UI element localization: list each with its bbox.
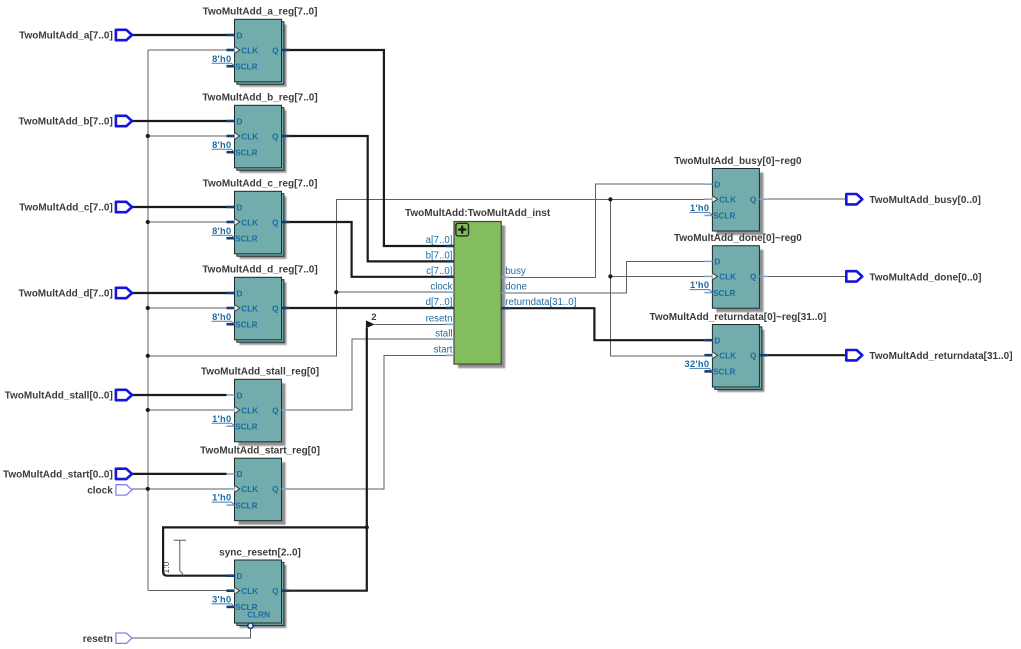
pin CLK of TwoMultAdd_busy_reg0 — [704, 196, 736, 205]
register TwoMultAdd_d_reg — [235, 277, 287, 345]
value label 8'h0 on SCLR of TwoMultAdd_d_reg — [212, 312, 235, 324]
svg-text:D: D — [714, 181, 720, 190]
register TwoMultAdd_done_reg0 — [712, 246, 763, 313]
svg-text:CLRN: CLRN — [247, 611, 270, 620]
svg-text:8'h0: 8'h0 — [212, 226, 231, 236]
svg-text:32'h0: 32'h0 — [684, 359, 709, 369]
svg-text:CLK: CLK — [241, 406, 258, 415]
pin CLK of TwoMultAdd_b_reg — [227, 132, 259, 141]
value label 1'h0 on SCLR of TwoMultAdd_busy_reg0 — [689, 203, 712, 215]
wire clock net: branch to b_reg CLK — [148, 135, 227, 137]
svg-text:D: D — [237, 289, 243, 298]
value label 8'h0 on SCLR of TwoMultAdd_c_reg — [212, 226, 235, 238]
svg-text:Q: Q — [272, 46, 279, 55]
svg-text:sync_resetn[2..0]: sync_resetn[2..0] — [219, 547, 301, 558]
wire TwoMultAdd_stall pin to stall_reg D — [132, 394, 227, 396]
svg-text:resetn: resetn — [83, 634, 113, 645]
bus rip arrow into resetn — [366, 320, 375, 328]
pin D of TwoMultAdd_d_reg — [227, 289, 243, 298]
svg-text:D: D — [237, 203, 243, 212]
wire d_reg Q to inst d — [290, 307, 447, 309]
pin c[7..0] of TwoMultAdd_inst — [426, 266, 454, 277]
junction clock at c_reg CLK — [146, 220, 150, 224]
svg-text:TwoMultAdd_done[0..0]: TwoMultAdd_done[0..0] — [869, 272, 981, 283]
svg-text:TwoMultAdd_a_reg[7..0]: TwoMultAdd_a_reg[7..0] — [203, 7, 318, 18]
input port TwoMultAdd_a — [19, 30, 132, 42]
pin b[7..0] of TwoMultAdd_inst — [426, 251, 454, 262]
svg-text:SCLR: SCLR — [235, 321, 257, 330]
pin CLK of TwoMultAdd_stall_reg — [227, 406, 259, 415]
pin CLK of TwoMultAdd_c_reg — [227, 218, 259, 227]
value label 3'h0 on SCLR of sync_resetn — [212, 595, 235, 607]
pin D of sync_resetn — [227, 572, 243, 581]
input port TwoMultAdd_b — [19, 116, 132, 128]
svg-text:resetn: resetn — [426, 314, 453, 325]
register TwoMultAdd_busy_reg0 — [712, 169, 763, 236]
pin Q of TwoMultAdd_stall_reg — [272, 406, 289, 415]
svg-text:Q: Q — [750, 273, 757, 282]
svg-text:TwoMultAdd_stall[0..0]: TwoMultAdd_stall[0..0] — [5, 391, 113, 402]
pin Q of sync_resetn — [272, 587, 289, 596]
pin D of TwoMultAdd_busy_reg0 — [704, 181, 720, 190]
junction clock at inst clock port — [334, 290, 338, 294]
svg-text:TwoMultAdd_start[0..0]: TwoMultAdd_start[0..0] — [3, 470, 113, 481]
wire clock net: branch to c_reg CLK — [148, 221, 227, 223]
pin Q of TwoMultAdd_start_reg — [272, 485, 289, 494]
junction clock at busy reg CLK row — [608, 197, 612, 201]
pin SCLR of TwoMultAdd_b_reg — [227, 149, 258, 158]
svg-text:TwoMultAdd_returndata[31..0]: TwoMultAdd_returndata[31..0] — [869, 351, 1012, 362]
svg-text:TwoMultAdd_busy[0..0]: TwoMultAdd_busy[0..0] — [869, 195, 980, 206]
pin done of TwoMultAdd_inst — [501, 282, 527, 293]
input port TwoMultAdd_start — [3, 469, 132, 481]
wire TwoMultAdd_d bus pin to d_reg D — [132, 292, 227, 294]
svg-text:clock: clock — [87, 486, 113, 497]
pin Q of TwoMultAdd_busy_reg0 — [750, 196, 767, 205]
svg-text:SCLR: SCLR — [235, 423, 257, 432]
svg-text:stall: stall — [435, 328, 452, 339]
svg-text:1:0: 1:0 — [161, 561, 171, 573]
pin CLK of sync_resetn — [227, 587, 259, 596]
pin D of TwoMultAdd_start_reg — [227, 470, 243, 479]
pin a[7..0] of TwoMultAdd_inst — [426, 235, 454, 246]
pin CLK of TwoMultAdd_d_reg — [227, 304, 259, 313]
svg-text:CLK: CLK — [241, 218, 258, 227]
wire clock net: branch toward TwoMultAdd_inst — [148, 199, 705, 355]
junction sync feedback junction — [365, 525, 369, 529]
junction clock at b_reg CLK — [146, 134, 150, 138]
svg-text:D: D — [714, 258, 720, 267]
input port TwoMultAdd_c — [19, 202, 132, 214]
wire a_reg Q to inst a — [290, 50, 447, 246]
value label 8'h0 on SCLR of TwoMultAdd_b_reg — [212, 140, 235, 152]
pin SCLR of TwoMultAdd_start_reg — [227, 501, 258, 510]
svg-text:CLK: CLK — [241, 46, 258, 55]
wire TwoMultAdd_b bus pin to b_reg D — [132, 120, 227, 122]
value label 8'h0 on SCLR of TwoMultAdd_a_reg — [212, 54, 235, 66]
pin stall of TwoMultAdd_inst — [435, 328, 454, 339]
svg-text:CLK: CLK — [719, 352, 736, 361]
svg-text:TwoMultAdd_c[7..0]: TwoMultAdd_c[7..0] — [19, 203, 113, 214]
junction clock at d_reg CLK — [146, 306, 150, 310]
wire sync_resetn riser to inst resetn — [366, 328, 368, 527]
bus ripper 1:0 bracket — [174, 540, 186, 575]
svg-text:TwoMultAdd_start_reg[0]: TwoMultAdd_start_reg[0] — [200, 446, 320, 457]
svg-text:1'h0: 1'h0 — [212, 414, 231, 424]
svg-text:D: D — [237, 117, 243, 126]
pin SCLR of TwoMultAdd_a_reg — [227, 63, 258, 72]
svg-text:CLK: CLK — [241, 304, 258, 313]
pin CLK of TwoMultAdd_a_reg — [227, 46, 259, 55]
wire clock net: branch to d_reg CLK — [148, 307, 227, 309]
svg-text:8'h0: 8'h0 — [212, 140, 231, 150]
wire TwoMultAdd_a bus pin to a_reg D — [132, 34, 227, 36]
svg-text:1'h0: 1'h0 — [690, 280, 709, 290]
wire start_reg Q to inst start — [290, 355, 447, 489]
svg-text:b[7..0]: b[7..0] — [426, 251, 453, 262]
svg-text:clock: clock — [430, 281, 452, 292]
svg-text:Q: Q — [272, 304, 279, 313]
svg-text:CLK: CLK — [241, 132, 258, 141]
svg-text:Q: Q — [272, 587, 279, 596]
wire stall_reg Q to inst stall — [290, 339, 447, 410]
wire clock net: branch to stall_reg CLK — [148, 409, 227, 411]
register sync_resetn — [235, 560, 287, 628]
svg-text:1'h0: 1'h0 — [690, 203, 709, 213]
svg-text:CLK: CLK — [719, 196, 736, 205]
wire inst returndata to returndata reg D — [509, 308, 704, 340]
wire clock net: branch to sync_resetn CLK — [148, 590, 227, 592]
value label 1'h0 on SCLR of TwoMultAdd_stall_reg — [212, 414, 235, 426]
svg-text:Q: Q — [272, 406, 279, 415]
pin D of TwoMultAdd_c_reg — [227, 203, 243, 212]
svg-text:SCLR: SCLR — [713, 368, 735, 377]
svg-text:8'h0: 8'h0 — [212, 312, 231, 322]
svg-text:Q: Q — [272, 485, 279, 494]
svg-text:TwoMultAdd_d[7..0]: TwoMultAdd_d[7..0] — [19, 289, 113, 300]
pin D of TwoMultAdd_b_reg — [227, 117, 243, 126]
svg-text:TwoMultAdd_stall_reg[0]: TwoMultAdd_stall_reg[0] — [201, 367, 319, 378]
svg-text:TwoMultAdd_c_reg[7..0]: TwoMultAdd_c_reg[7..0] — [203, 179, 318, 190]
wire inst busy to busy reg D — [509, 184, 704, 277]
wire done reg Q to output pin — [767, 275, 846, 277]
svg-text:CLK: CLK — [241, 485, 258, 494]
svg-text:3'h0: 3'h0 — [212, 595, 231, 605]
register TwoMultAdd_a_reg — [235, 19, 287, 87]
expand icon (plus) — [456, 223, 469, 236]
register TwoMultAdd_c_reg — [235, 191, 287, 258]
svg-text:D: D — [237, 572, 243, 581]
pin D of TwoMultAdd_stall_reg — [227, 391, 243, 400]
pin SCLR of sync_resetn — [227, 603, 258, 612]
svg-text:SCLR: SCLR — [235, 149, 257, 158]
pin SCLR of TwoMultAdd_busy_reg0 — [704, 212, 735, 221]
svg-text:done: done — [505, 282, 527, 293]
pin Q of TwoMultAdd_c_reg — [272, 218, 289, 227]
svg-text:TwoMultAdd_b_reg[7..0]: TwoMultAdd_b_reg[7..0] — [202, 93, 317, 104]
pin Q of TwoMultAdd_d_reg — [272, 304, 289, 313]
wire clock net: branch to done reg CLK — [610, 275, 704, 277]
wire clock net: main vertical — [147, 50, 149, 591]
svg-text:d[7..0]: d[7..0] — [426, 297, 453, 308]
pin SCLR of TwoMultAdd_stall_reg — [227, 423, 258, 432]
wire TwoMultAdd_c bus pin to c_reg D — [132, 206, 227, 208]
pin Q of TwoMultAdd_b_reg — [272, 132, 289, 141]
output port TwoMultAdd_done — [846, 271, 981, 283]
svg-text:busy: busy — [505, 266, 526, 277]
wire inst done to done reg D — [509, 261, 704, 293]
wire busy reg Q to output pin — [767, 198, 846, 200]
wire clock net: branch to a_reg CLK — [148, 49, 227, 51]
svg-text:Q: Q — [750, 352, 757, 361]
pin SCLR of TwoMultAdd_c_reg — [227, 235, 258, 244]
value label 1'h0 on SCLR of TwoMultAdd_done_reg0 — [689, 280, 712, 292]
svg-text:TwoMultAdd_busy[0]~reg0: TwoMultAdd_busy[0]~reg0 — [674, 156, 802, 167]
svg-text:D: D — [237, 31, 243, 40]
svg-text:TwoMultAdd_d_reg[7..0]: TwoMultAdd_d_reg[7..0] — [202, 265, 317, 276]
pin busy of TwoMultAdd_inst — [501, 266, 526, 277]
pin start of TwoMultAdd_inst — [434, 345, 454, 356]
svg-text:TwoMultAdd_a[7..0]: TwoMultAdd_a[7..0] — [19, 31, 113, 42]
svg-text:TwoMultAdd_b[7..0]: TwoMultAdd_b[7..0] — [19, 117, 113, 128]
pin Q of TwoMultAdd_returndata_reg — [750, 352, 767, 361]
register TwoMultAdd_start_reg — [235, 458, 286, 525]
value label 32'h0 on SCLR of TwoMultAdd_returndata_reg — [684, 359, 712, 371]
input port TwoMultAdd_stall — [5, 390, 132, 402]
input port clock — [87, 485, 132, 497]
svg-text:SCLR: SCLR — [235, 501, 257, 510]
svg-text:Q: Q — [272, 218, 279, 227]
svg-text:returndata[31..0]: returndata[31..0] — [505, 297, 576, 308]
svg-text:D: D — [237, 470, 243, 479]
svg-text:Q: Q — [272, 132, 279, 141]
pin Q of TwoMultAdd_a_reg — [272, 46, 289, 55]
wire clock net: stub into TwoMultAdd_inst clock — [336, 291, 446, 293]
pin clock of TwoMultAdd_inst — [430, 281, 454, 292]
svg-text:SCLR: SCLR — [713, 289, 735, 298]
output port TwoMultAdd_returndata — [846, 350, 1012, 362]
value label 1'h0 on SCLR of TwoMultAdd_start_reg — [212, 493, 235, 505]
module TwoMultAdd:TwoMultAdd_inst — [454, 222, 505, 369]
input port resetn — [83, 633, 132, 645]
input port TwoMultAdd_d — [19, 288, 132, 300]
svg-text:SCLR: SCLR — [235, 63, 257, 72]
register TwoMultAdd_stall_reg — [235, 379, 286, 446]
wire TwoMultAdd_start pin to start_reg D — [132, 473, 227, 475]
pin D of TwoMultAdd_done_reg0 — [704, 258, 720, 267]
svg-text:start: start — [434, 345, 453, 356]
wire sync_resetn Q loop — [163, 527, 367, 590]
wire b_reg Q to inst b — [290, 136, 447, 261]
svg-text:TwoMultAdd:TwoMultAdd_inst: TwoMultAdd:TwoMultAdd_inst — [405, 208, 551, 219]
svg-text:a[7..0]: a[7..0] — [426, 235, 453, 246]
pin resetn of TwoMultAdd_inst — [426, 314, 454, 325]
pin Q of TwoMultAdd_done_reg0 — [750, 273, 767, 282]
junction clock at inst branch — [146, 354, 150, 358]
svg-text:D: D — [237, 391, 243, 400]
wire clock net: right vertical to output registers — [610, 199, 704, 356]
wire resetn pin to sync_resetn CLRN — [132, 629, 251, 639]
svg-text:SCLR: SCLR — [235, 235, 257, 244]
wire c_reg Q to inst c — [290, 222, 447, 277]
svg-text:CLK: CLK — [719, 273, 736, 282]
svg-text:Q: Q — [750, 196, 757, 205]
pin d[7..0] of TwoMultAdd_inst — [426, 297, 454, 308]
junction clock at stall_reg CLK — [146, 408, 150, 412]
svg-text:TwoMultAdd_done[0]~reg0: TwoMultAdd_done[0]~reg0 — [674, 233, 802, 244]
pin D of TwoMultAdd_a_reg — [227, 31, 243, 40]
svg-text:TwoMultAdd_returndata[0]~reg[3: TwoMultAdd_returndata[0]~reg[31..0] — [650, 312, 827, 323]
junction clock at clock pin row — [146, 487, 150, 491]
pin SCLR of TwoMultAdd_done_reg0 — [704, 289, 735, 298]
wire resetn wire arrow to inst resetn — [374, 323, 446, 325]
wire returndata reg Q to output pin — [767, 354, 846, 356]
pin CLK of TwoMultAdd_done_reg0 — [704, 273, 736, 282]
pin SCLR of TwoMultAdd_returndata_reg — [704, 368, 735, 377]
svg-text:SCLR: SCLR — [713, 212, 735, 221]
svg-text:8'h0: 8'h0 — [212, 54, 231, 64]
svg-text:1'h0: 1'h0 — [212, 493, 231, 503]
svg-text:c[7..0]: c[7..0] — [426, 266, 452, 277]
junction clock at done reg CLK row — [608, 274, 612, 278]
pin returndata[31..0] of TwoMultAdd_inst — [501, 297, 576, 308]
svg-text:2: 2 — [371, 312, 376, 323]
pin D of TwoMultAdd_returndata_reg — [704, 337, 720, 346]
svg-text:CLK: CLK — [241, 587, 258, 596]
register TwoMultAdd_b_reg — [235, 105, 287, 173]
register TwoMultAdd_returndata_reg — [712, 325, 764, 393]
pin CLK of TwoMultAdd_returndata_reg — [704, 352, 736, 361]
wire clock net: pin to start_reg CLK — [132, 488, 227, 490]
svg-text:D: D — [714, 337, 720, 346]
output port TwoMultAdd_busy — [846, 194, 981, 206]
pin CLRN of sync_resetn — [247, 611, 270, 629]
pin SCLR of TwoMultAdd_d_reg — [227, 321, 258, 330]
pin CLK of TwoMultAdd_start_reg — [227, 485, 259, 494]
